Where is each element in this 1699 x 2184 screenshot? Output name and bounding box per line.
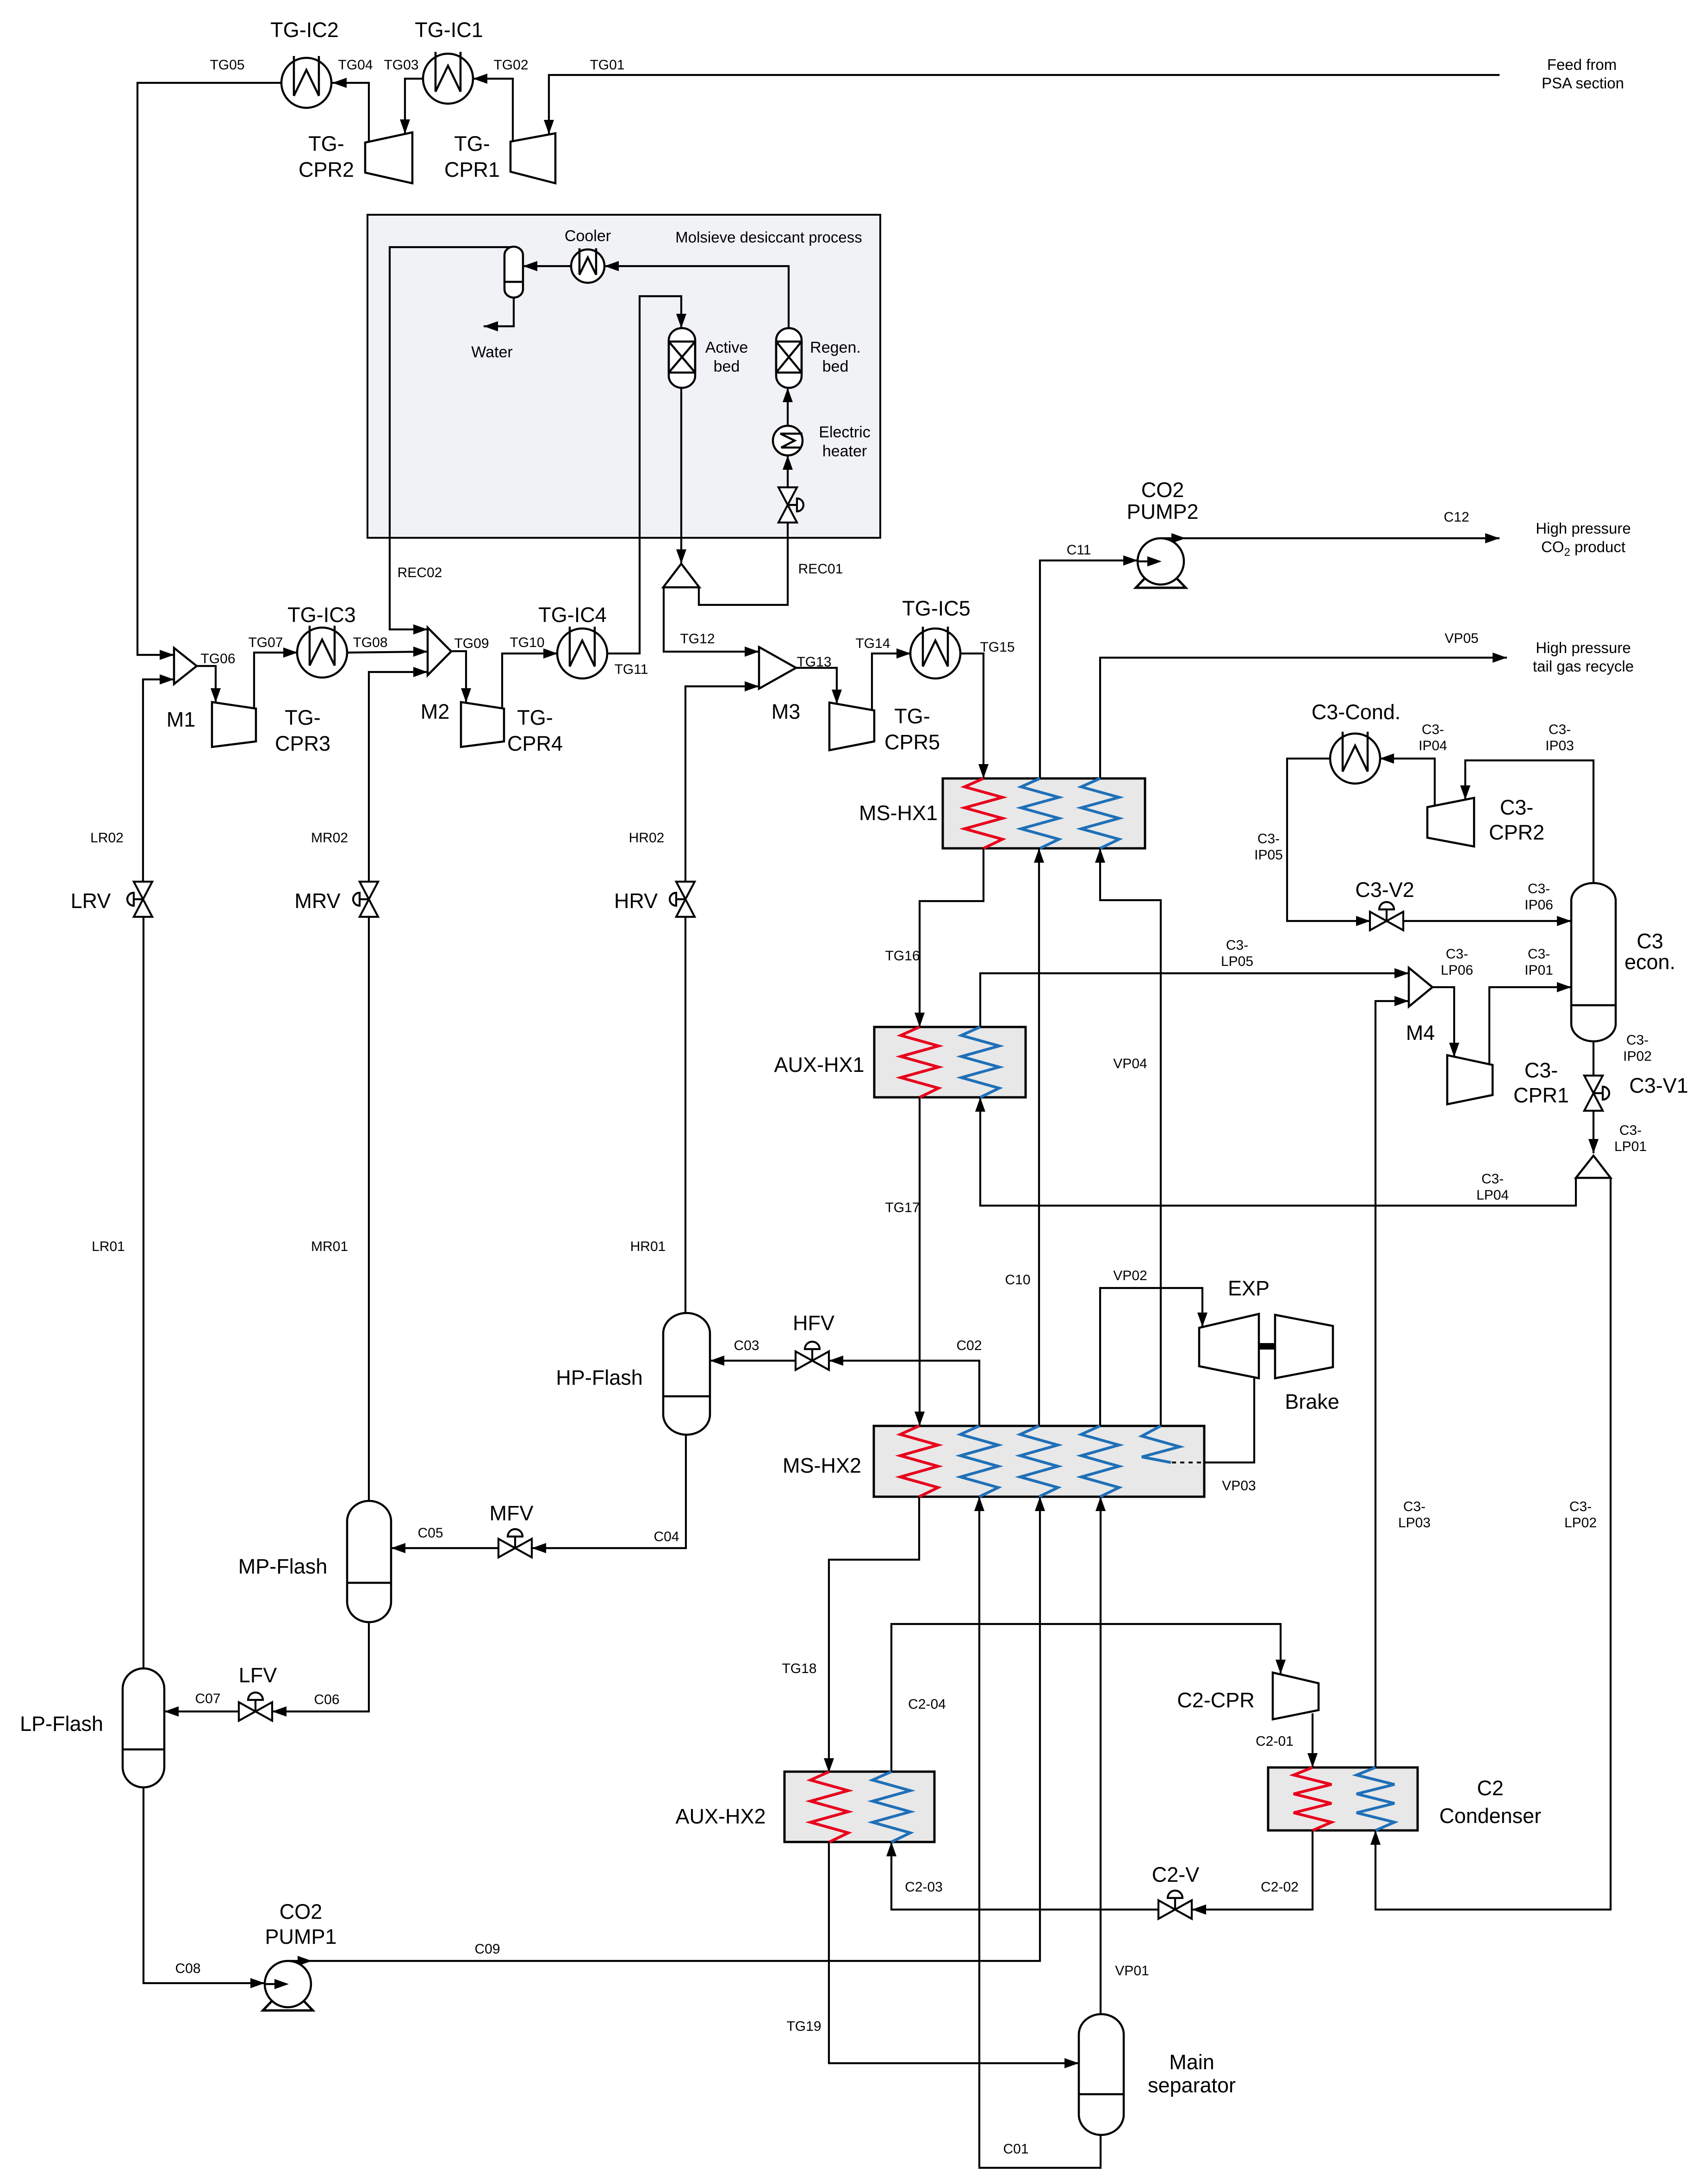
label AUX-HX2 <box>675 1804 765 1828</box>
svg-text:C04: C04 <box>653 1529 679 1544</box>
wire water outlet <box>484 298 514 331</box>
label C3-V1 <box>1629 1074 1688 1097</box>
svg-text:C11: C11 <box>1067 542 1091 558</box>
svg-text:C3-Cond.: C3-Cond. <box>1312 700 1401 724</box>
valve MFV <box>498 1529 532 1557</box>
wire TG19 <box>829 1842 1079 2068</box>
wire LR01 <box>143 917 144 1668</box>
wire C3-LP03 <box>1375 996 1409 1767</box>
svg-text:C3-: C3- <box>1226 938 1248 953</box>
molsieve desiccant process box <box>367 215 880 538</box>
svg-text:Feed from: Feed from <box>1547 56 1617 73</box>
wire C3-IP05 <box>1287 759 1370 926</box>
svg-text:High pressure: High pressure <box>1536 520 1631 537</box>
valve in molsieve box <box>778 487 803 523</box>
svg-text:MS-HX1: MS-HX1 <box>859 801 938 825</box>
label C3-IP05 <box>1254 831 1283 863</box>
svg-text:C02: C02 <box>956 1338 982 1353</box>
svg-text:TG10: TG10 <box>510 635 544 650</box>
label CO2 PUMP1 <box>265 1900 336 1948</box>
svg-text:C3-: C3- <box>1626 1033 1649 1048</box>
label C2-04 <box>908 1697 946 1712</box>
svg-text:TG19: TG19 <box>786 2019 821 2034</box>
wire LR02 <box>143 674 174 882</box>
svg-text:Cooler: Cooler <box>565 227 611 245</box>
label VP02 <box>1113 1268 1147 1283</box>
label VP01 <box>1115 1963 1149 1979</box>
label TG07 <box>248 635 283 650</box>
svg-text:MRV: MRV <box>294 889 340 913</box>
label C04 <box>653 1529 679 1544</box>
wire C3-LP01 <box>1588 1111 1599 1153</box>
svg-text:Electric: Electric <box>819 423 870 441</box>
label MFV <box>490 1501 534 1525</box>
wire active bed outlet <box>676 388 686 564</box>
label TG05 <box>210 57 244 73</box>
label LR01 <box>92 1239 125 1254</box>
svg-text:C3-: C3- <box>1619 1123 1642 1138</box>
svg-text:tail gas recycle: tail gas recycle <box>1533 658 1634 675</box>
label TG10 <box>510 635 544 650</box>
wire C3-IP03 <box>1460 760 1593 883</box>
svg-text:C3-: C3- <box>1403 1499 1425 1514</box>
svg-text:C10: C10 <box>1005 1272 1030 1288</box>
svg-text:HRV: HRV <box>614 889 658 913</box>
label C2-02 <box>1261 1879 1299 1895</box>
valve C2-V <box>1158 1891 1192 1919</box>
label TG01 <box>590 57 624 73</box>
valve C3-V2 <box>1370 902 1403 930</box>
label M3 <box>772 700 801 723</box>
wire HR02 <box>685 681 759 882</box>
svg-text:PSA section: PSA section <box>1542 75 1624 92</box>
wire TG18 <box>824 1497 919 1773</box>
svg-text:C08: C08 <box>175 1961 200 1976</box>
valve C3-V1 <box>1584 1076 1609 1111</box>
svg-text:TG03: TG03 <box>384 57 418 73</box>
valve HRV <box>670 882 695 917</box>
label MR02 <box>311 830 348 846</box>
wire C07 <box>164 1706 239 1717</box>
splitter funnel C3-LP01 <box>1576 1156 1611 1178</box>
mixer M4 <box>1409 968 1432 1007</box>
svg-text:TG12: TG12 <box>680 631 715 647</box>
valve HFV <box>796 1342 829 1370</box>
svg-text:TG-: TG- <box>517 706 553 729</box>
compressor TG-CPR2 <box>365 132 412 183</box>
svg-text:TG07: TG07 <box>248 635 283 650</box>
svg-text:EXP: EXP <box>1228 1276 1270 1300</box>
heat exchanger MS-HX1 <box>943 778 1145 848</box>
wire C3-LP06 <box>1432 987 1459 1057</box>
wire TG17 <box>915 1097 925 1426</box>
svg-text:CPR5: CPR5 <box>884 730 940 754</box>
svg-text:LP04: LP04 <box>1476 1188 1509 1203</box>
wire C05 <box>391 1543 498 1553</box>
label HP-Flash <box>556 1366 643 1389</box>
label TG02 <box>493 57 528 73</box>
label C3-V2 <box>1355 878 1414 902</box>
svg-text:TG16: TG16 <box>885 948 920 964</box>
svg-text:AUX-HX1: AUX-HX1 <box>774 1053 864 1076</box>
label C3-LP06 <box>1441 946 1473 978</box>
svg-text:LP05: LP05 <box>1221 954 1253 969</box>
svg-text:REC01: REC01 <box>798 561 843 577</box>
label TG17 <box>885 1200 920 1215</box>
svg-text:Water: Water <box>471 343 512 361</box>
svg-text:PUMP1: PUMP1 <box>265 1925 336 1948</box>
label TG04 <box>338 57 373 73</box>
svg-text:C12: C12 <box>1444 510 1469 525</box>
svg-text:MP-Flash: MP-Flash <box>238 1555 328 1578</box>
svg-text:TG-: TG- <box>308 132 344 156</box>
label TG08 <box>353 635 387 650</box>
heat exchanger TG-IC3 <box>297 626 347 678</box>
wire C11 <box>1040 555 1138 778</box>
label TG15 <box>980 640 1014 655</box>
wire VP05 <box>1100 653 1507 778</box>
label Molsieve desiccant process <box>675 229 862 246</box>
svg-text:LP06: LP06 <box>1441 963 1473 978</box>
vessel MP-Flash <box>347 1501 391 1622</box>
svg-text:IP02: IP02 <box>1623 1049 1652 1064</box>
svg-text:CPR4: CPR4 <box>507 732 563 755</box>
label High pressure tail gas recycle <box>1533 639 1634 675</box>
svg-text:separator: separator <box>1148 2073 1236 2097</box>
svg-text:CPR1: CPR1 <box>1513 1083 1569 1107</box>
svg-text:IP06: IP06 <box>1525 897 1553 913</box>
wire C2-03 <box>886 1842 1158 1910</box>
label Electric heater <box>819 423 870 460</box>
svg-text:C2-03: C2-03 <box>905 1879 943 1895</box>
heat exchanger MS-HX2 <box>874 1426 1204 1497</box>
label REC01 <box>798 561 843 577</box>
heat exchanger TG-IC2 <box>281 56 331 108</box>
wire C11 pump inlet arrow <box>1138 555 1162 566</box>
svg-text:VP01: VP01 <box>1115 1963 1149 1979</box>
condenser C3-Cond. <box>1330 732 1380 784</box>
label C3-LP01 <box>1614 1123 1647 1154</box>
label C3-IP02 <box>1623 1033 1652 1064</box>
svg-text:Main: Main <box>1169 2050 1214 2074</box>
vessel LP-Flash <box>123 1668 164 1787</box>
wire TG10 <box>502 648 558 709</box>
label C05 <box>417 1525 443 1541</box>
svg-text:High pressure: High pressure <box>1536 639 1631 656</box>
svg-text:C3-: C3- <box>1257 831 1280 846</box>
label Water <box>471 343 512 361</box>
svg-text:HFV: HFV <box>793 1311 834 1335</box>
svg-text:TG14: TG14 <box>855 636 890 651</box>
label Active bed <box>705 339 748 375</box>
label TG-CPR5 <box>884 704 940 754</box>
label Feed from PSA section <box>1542 56 1624 92</box>
label M4 <box>1406 1021 1435 1045</box>
label TG-CPR4 <box>507 706 563 755</box>
svg-text:TG01: TG01 <box>590 57 624 73</box>
heat exchanger AUX-HX1 <box>874 1027 1026 1097</box>
label C3-LP05 <box>1221 938 1253 969</box>
svg-text:CO2: CO2 <box>280 1900 323 1923</box>
label TG06 <box>200 651 235 666</box>
wire C08 <box>143 1787 265 1988</box>
svg-text:C3-: C3- <box>1528 881 1550 896</box>
label MS-HX1 <box>859 801 938 825</box>
knockout drum in molsieve box <box>504 247 523 298</box>
svg-text:IP03: IP03 <box>1545 738 1574 753</box>
label C03 <box>734 1338 759 1353</box>
brake wheel <box>1275 1315 1333 1378</box>
svg-text:LRV: LRV <box>71 889 111 913</box>
wire TG05 <box>137 83 280 660</box>
svg-text:HR02: HR02 <box>629 830 665 846</box>
svg-text:C3-: C3- <box>1569 1499 1592 1514</box>
svg-text:TG17: TG17 <box>885 1200 920 1215</box>
expander EXP <box>1199 1314 1259 1378</box>
svg-text:C3-: C3- <box>1500 796 1534 819</box>
svg-text:CPR1: CPR1 <box>444 158 500 181</box>
svg-text:M3: M3 <box>772 700 801 723</box>
wire TG09 <box>451 651 471 703</box>
svg-text:bed: bed <box>714 358 740 375</box>
wire cooler to knockout drum <box>523 261 571 271</box>
svg-text:Condenser: Condenser <box>1439 1804 1541 1828</box>
wire heater to regen bed <box>783 388 793 426</box>
wire VP04 <box>1095 848 1161 1426</box>
splitter funnel below molsieve box <box>663 564 699 587</box>
svg-text:C06: C06 <box>314 1692 339 1707</box>
label C3-IP04 <box>1419 722 1447 753</box>
wire C3-LP02 <box>1370 1178 1611 1910</box>
compressor C3-CPR1 <box>1447 1055 1493 1104</box>
label C11 <box>1067 542 1091 558</box>
svg-text:TG11: TG11 <box>615 662 648 677</box>
label Main separator <box>1148 2050 1236 2097</box>
svg-text:IP04: IP04 <box>1419 738 1447 753</box>
label C2-CPR <box>1177 1688 1255 1712</box>
wire C09 <box>288 1497 1045 1966</box>
svg-text:CPR3: CPR3 <box>275 732 330 755</box>
svg-text:VP03: VP03 <box>1222 1478 1256 1493</box>
label LP-Flash <box>20 1712 103 1736</box>
svg-text:HP-Flash: HP-Flash <box>556 1366 643 1389</box>
svg-text:MS-HX2: MS-HX2 <box>783 1454 861 1477</box>
wire TG11 <box>607 296 686 653</box>
wire C3-IP02 <box>1593 1041 1594 1076</box>
wire TG04 <box>332 78 369 143</box>
svg-text:C2-01: C2-01 <box>1256 1734 1294 1749</box>
svg-text:C3-: C3- <box>1549 722 1571 737</box>
svg-text:heater: heater <box>822 442 867 460</box>
svg-text:TG-IC1: TG-IC1 <box>415 18 483 42</box>
wire TG16 <box>915 848 983 1027</box>
svg-text:MR02: MR02 <box>311 830 348 846</box>
label VP05 <box>1444 631 1478 646</box>
label C3 econ. <box>1624 929 1675 974</box>
wire valve to heater <box>783 455 793 491</box>
electric heater <box>773 426 803 455</box>
heat exchanger C2 Condenser block <box>1268 1767 1418 1830</box>
svg-text:econ.: econ. <box>1624 950 1675 974</box>
svg-text:C07: C07 <box>195 1691 220 1706</box>
label C2-01 <box>1256 1734 1294 1749</box>
svg-text:VP05: VP05 <box>1444 631 1478 646</box>
label TG-IC5 <box>902 597 971 620</box>
label LR02 <box>90 830 124 846</box>
heat exchanger TG-IC5 <box>910 627 960 678</box>
label C3-IP03 <box>1545 722 1574 753</box>
svg-text:M4: M4 <box>1406 1021 1435 1045</box>
svg-text:LP02: LP02 <box>1564 1515 1597 1531</box>
label MS-HX2 <box>783 1454 861 1477</box>
wire TG01 feed <box>544 75 1500 134</box>
svg-text:Molsieve desiccant process: Molsieve desiccant process <box>675 229 862 246</box>
label TG-IC2 <box>270 18 339 42</box>
svg-text:LFV: LFV <box>239 1663 277 1687</box>
mixer M3 <box>759 647 796 689</box>
label TG-CPR3 <box>275 706 330 755</box>
label C3-LP04 <box>1476 1171 1509 1203</box>
label REC02 <box>398 565 442 580</box>
wire HR01 <box>685 917 686 1313</box>
svg-text:TG15: TG15 <box>980 640 1014 655</box>
svg-text:LP03: LP03 <box>1398 1515 1431 1531</box>
label MR01 <box>311 1239 348 1254</box>
svg-text:PUMP2: PUMP2 <box>1126 500 1198 523</box>
wire TG08 <box>347 647 428 657</box>
svg-text:MR01: MR01 <box>311 1239 348 1254</box>
mixer M2 <box>428 628 451 675</box>
label TG-IC1 <box>415 18 483 42</box>
label CO2 PUMP2 <box>1126 478 1198 523</box>
wire REC01 <box>699 519 788 605</box>
label AUX-HX1 <box>774 1053 864 1076</box>
svg-text:C3-: C3- <box>1446 946 1468 962</box>
valve LRV <box>127 882 152 917</box>
svg-text:TG02: TG02 <box>493 57 528 73</box>
svg-text:C3-V2: C3-V2 <box>1355 878 1414 902</box>
label TG-CPR2 <box>299 132 354 181</box>
label C2-03 <box>905 1879 943 1895</box>
svg-text:C3: C3 <box>1637 929 1663 953</box>
wire C3-LP04 <box>975 1097 1576 1206</box>
svg-text:bed: bed <box>822 358 849 375</box>
svg-text:C05: C05 <box>417 1525 443 1541</box>
svg-text:TG-: TG- <box>894 704 930 728</box>
wire TG06 <box>197 666 221 703</box>
svg-text:LP-Flash: LP-Flash <box>20 1712 103 1736</box>
vessel Regen. bed <box>776 328 802 388</box>
wire TG07 <box>254 647 298 709</box>
svg-text:AUX-HX2: AUX-HX2 <box>675 1804 765 1828</box>
svg-text:TG13: TG13 <box>797 654 831 670</box>
svg-text:TG-IC4: TG-IC4 <box>538 603 607 627</box>
svg-text:C2-04: C2-04 <box>908 1697 946 1712</box>
svg-text:IP01: IP01 <box>1525 963 1553 978</box>
label C3-LP02 <box>1564 1499 1597 1531</box>
wire TG03 <box>400 79 423 134</box>
label C09 <box>474 1941 500 1957</box>
svg-text:C3-: C3- <box>1481 1171 1504 1187</box>
label TG03 <box>384 57 418 73</box>
label TG18 <box>782 1661 816 1676</box>
wire C3-IP04 <box>1380 753 1435 806</box>
expander shaft <box>1259 1343 1275 1350</box>
svg-text:TG-: TG- <box>454 132 490 156</box>
wire TG15 <box>960 653 989 778</box>
svg-text:LR01: LR01 <box>92 1239 125 1254</box>
compressor C3-CPR2 <box>1427 798 1474 846</box>
wire MR02 <box>369 667 428 882</box>
svg-text:TG04: TG04 <box>338 57 373 73</box>
svg-text:C3-V1: C3-V1 <box>1629 1074 1688 1097</box>
svg-text:TG-: TG- <box>285 706 320 729</box>
wire C3-IP01 <box>1489 982 1571 1065</box>
svg-text:Active: Active <box>705 339 748 356</box>
svg-text:IP05: IP05 <box>1254 847 1283 863</box>
label TG16 <box>885 948 920 964</box>
wire regen bed to cooler <box>604 261 789 328</box>
wire TG12 <box>664 587 759 657</box>
svg-text:C09: C09 <box>474 1941 500 1957</box>
label C2-V <box>1152 1863 1200 1886</box>
label VP04 <box>1113 1056 1147 1071</box>
label C3-Cond. <box>1312 700 1401 724</box>
wire C02 <box>829 1356 979 1426</box>
label TG19 <box>786 2019 821 2034</box>
label TG13 <box>797 654 831 670</box>
svg-text:REC02: REC02 <box>398 565 442 580</box>
label Brake <box>1285 1390 1339 1413</box>
valve LFV <box>239 1692 272 1721</box>
svg-text:TG18: TG18 <box>782 1661 816 1676</box>
svg-text:C3-: C3- <box>1525 1058 1558 1082</box>
svg-text:VP02: VP02 <box>1113 1268 1147 1283</box>
svg-text:M1: M1 <box>167 708 196 731</box>
label C10 <box>1005 1272 1030 1288</box>
label M1 <box>167 708 196 731</box>
svg-text:C01: C01 <box>1003 2141 1028 2157</box>
heat exchanger AUX-HX2 <box>784 1772 934 1842</box>
svg-text:TG09: TG09 <box>454 636 489 651</box>
label MRV <box>294 889 340 913</box>
label TG14 <box>855 636 890 651</box>
label M2 <box>421 700 450 723</box>
label Cooler <box>565 227 611 245</box>
label TG-CPR1 <box>444 132 500 181</box>
compressor TG-CPR5 <box>829 703 874 750</box>
label C3-CPR1 <box>1513 1058 1569 1107</box>
svg-text:HR01: HR01 <box>630 1239 666 1254</box>
label C12 <box>1444 510 1469 525</box>
wire TG13 <box>796 668 842 704</box>
label C06 <box>314 1692 339 1707</box>
wire C2-02 <box>1192 1830 1313 1915</box>
svg-text:CPR2: CPR2 <box>299 158 354 181</box>
label HR02 <box>629 830 665 846</box>
svg-text:TG-IC3: TG-IC3 <box>287 603 356 627</box>
wire C06 <box>272 1622 369 1717</box>
label C3-CPR2 <box>1489 796 1544 844</box>
wire C2-04 <box>891 1624 1286 1772</box>
compressor TG-CPR3 <box>212 702 256 747</box>
svg-text:TG05: TG05 <box>210 57 244 73</box>
label EXP <box>1228 1276 1270 1300</box>
wire TG14 <box>872 648 911 710</box>
label TG11 <box>615 662 648 677</box>
svg-text:TG06: TG06 <box>200 651 235 666</box>
label TG12 <box>680 631 715 647</box>
